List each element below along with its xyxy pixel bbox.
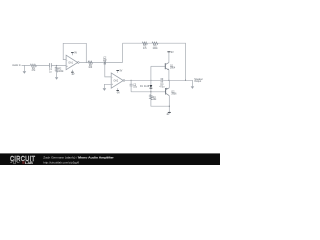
transistor Q2 (165, 88, 167, 95)
node C3 branch junction (131, 80, 132, 81)
svg-text:100: 100 (88, 67, 93, 69)
node B junction (104, 62, 105, 63)
logo square (22, 161, 24, 164)
node collector/R4 junction (169, 106, 170, 107)
svg-text:-9V: -9V (71, 74, 75, 76)
wire Q1 base (151, 65, 165, 67)
wire node B to OA2 inverting input (105, 62, 111, 77)
node base column junction top (150, 80, 151, 81)
capacitor C2 (104, 60, 106, 64)
wire feedback loop OA1 (63, 43, 86, 62)
wire Q1 emitter to rail (168, 70, 170, 80)
resistor R1 (30, 64, 36, 66)
ground G1 (23, 65, 25, 71)
logo waveform (10, 161, 19, 164)
svg-text:OA2: OA2 (114, 79, 119, 82)
wire OA2 output rail (125, 79, 193, 81)
wire input horizontal (22, 64, 67, 66)
svg-text:470u: 470u (159, 86, 165, 88)
svg-text:-9V: -9V (116, 92, 120, 94)
op-amp OA2 (111, 73, 123, 88)
wire C3 to Q2 base (131, 91, 165, 93)
wire OA1 output (79, 61, 104, 63)
svg-text:10k: 10k (153, 99, 158, 101)
ground G4 (191, 80, 193, 86)
svg-text:LAB: LAB (25, 161, 33, 165)
svg-text:10u: 10u (133, 87, 138, 89)
svg-text:OA1: OA1 (68, 61, 73, 64)
wire top rail (123, 43, 186, 80)
svg-text:100k: 100k (58, 71, 64, 73)
OA2 V- flag (117, 88, 119, 90)
svg-text:9V: 9V (120, 71, 123, 73)
svg-text:47k: 47k (32, 70, 37, 72)
svg-text:3906: 3906 (171, 94, 177, 96)
OA1 V+ flag (71, 53, 73, 56)
resistor R3 (88, 61, 93, 63)
svg-text:3904: 3904 (170, 67, 176, 69)
svg-text:http://circuitlab.com/c/p5gy8: http://circuitlab.com/c/p5gy8 (43, 160, 79, 164)
ground G3 (103, 88, 107, 91)
resistor R4 (150, 95, 152, 100)
wire Q1 collector (168, 52, 170, 63)
wire OA2 + input to ground (104, 84, 111, 88)
svg-text:Zach Germann (alanfc) / Mono A: Zach Germann (alanfc) / Mono Audio Ampli… (43, 156, 114, 160)
svg-text:100k: 100k (153, 48, 159, 50)
node OA1 out junction (86, 62, 87, 63)
wire base column (150, 66, 152, 94)
footer bar (0, 153, 220, 165)
wire Q2 collector down (168, 96, 170, 113)
wire R4 bottom to V- (151, 100, 169, 106)
svg-text:10u: 10u (103, 59, 108, 61)
op-amp OA1 (66, 55, 78, 69)
OA1 V- flag (71, 70, 73, 73)
svg-text:9V: 9V (74, 53, 77, 55)
logo CIRCUIT (10, 156, 35, 164)
svg-text:-9V: -9V (166, 114, 170, 116)
power V+ flag Q1 (167, 51, 170, 53)
svg-text:4148: 4148 (144, 86, 150, 88)
node feedback junction (185, 80, 186, 81)
power V- flag Q2 (168, 111, 171, 113)
wire C2 to rail corner (106, 43, 123, 62)
OA2 V+ flag (117, 71, 119, 73)
wire Q2 emitter to rail (168, 80, 170, 88)
resistor R2 (56, 65, 58, 77)
node A junction (56, 65, 57, 66)
ground G2 (55, 77, 58, 80)
capacitor C3 (130, 80, 132, 92)
capacitor C4 (161, 78, 163, 83)
diode D1 (150, 85, 153, 88)
resistor R5 (142, 42, 147, 44)
node emitter junction (168, 80, 169, 81)
transistor Q1 (164, 63, 166, 69)
svg-text:47k: 47k (143, 48, 148, 50)
capacitor C1 (50, 63, 52, 68)
svg-text:Output: Output (194, 80, 201, 83)
node base line junction (150, 91, 151, 92)
svg-text:Audio In: Audio In (12, 64, 21, 67)
resistor R6 (152, 42, 158, 44)
svg-text:1u: 1u (49, 71, 52, 73)
svg-text:9V: 9V (171, 52, 174, 54)
